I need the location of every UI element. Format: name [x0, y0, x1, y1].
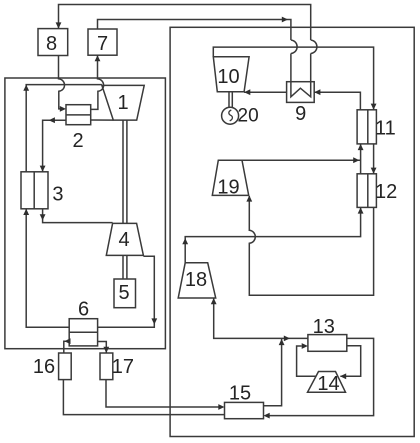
svg-text:7: 7 — [97, 33, 108, 55]
svg-text:11: 11 — [375, 117, 396, 139]
svg-text:1: 1 — [117, 92, 128, 114]
svg-text:20: 20 — [238, 105, 259, 126]
svg-text:2: 2 — [72, 130, 83, 152]
svg-text:3: 3 — [52, 184, 63, 206]
svg-text:16: 16 — [33, 356, 55, 378]
svg-text:6: 6 — [78, 299, 89, 321]
svg-text:4: 4 — [118, 229, 129, 251]
svg-text:15: 15 — [229, 383, 251, 405]
svg-text:19: 19 — [217, 177, 239, 199]
svg-text:10: 10 — [217, 66, 239, 88]
svg-text:8: 8 — [46, 33, 57, 55]
svg-text:18: 18 — [185, 269, 207, 291]
svg-text:13: 13 — [313, 316, 335, 338]
svg-text:12: 12 — [375, 181, 397, 203]
svg-text:17: 17 — [112, 356, 134, 378]
svg-text:14: 14 — [317, 373, 339, 395]
svg-text:9: 9 — [295, 103, 306, 125]
svg-text:5: 5 — [118, 282, 129, 304]
